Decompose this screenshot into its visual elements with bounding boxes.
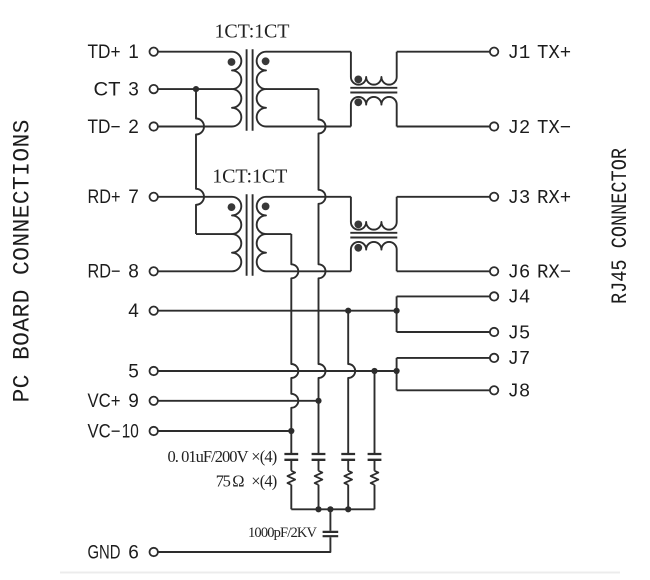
rail 4 vertical (pin5 line to C4) xyxy=(374,371,376,455)
wire T2 primary center tap xyxy=(196,233,232,235)
capacitor C4 0.01uF/200V xyxy=(368,454,382,460)
svg-text:RD+: RD+ xyxy=(88,187,121,208)
choke L2 top winding xyxy=(351,197,397,230)
wire CT pin3 to T1 primary center tap xyxy=(158,88,232,90)
wire TD+ pin1 to T1 primary top xyxy=(158,51,232,53)
svg-text:×(4): ×(4) xyxy=(251,471,277,490)
transformer T1 core xyxy=(247,49,253,131)
svg-text:1000pF/2KV: 1000pF/2KV xyxy=(248,525,318,541)
svg-text:CT: CT xyxy=(94,80,121,101)
capacitor C3 0.01uF/200V xyxy=(341,454,355,460)
svg-text:75 Ω: 75 Ω xyxy=(216,471,245,490)
svg-text:5: 5 xyxy=(128,361,139,382)
svg-text:RJ45 CONNECTOR: RJ45 CONNECTOR xyxy=(608,148,633,304)
svg-text:6: 6 xyxy=(128,542,139,563)
svg-text:J5: J5 xyxy=(508,322,531,344)
terminal J6 circle xyxy=(490,267,498,275)
pin CT 3 terminal xyxy=(150,85,158,93)
svg-text:7: 7 xyxy=(128,187,139,208)
T1 secondary phase dot xyxy=(262,57,270,65)
pin VC+ 9 terminal xyxy=(150,397,158,405)
svg-text:TX−: TX− xyxy=(537,117,571,139)
pin TD+ 1 terminal xyxy=(150,48,158,56)
junction pin4 at bracket xyxy=(394,308,400,314)
svg-text:J2: J2 xyxy=(508,117,531,139)
choke L1 core xyxy=(350,88,397,93)
wire choke L2 to J3 xyxy=(397,196,490,198)
transformer T2 core xyxy=(247,194,253,275)
wire C3 to R3 xyxy=(347,461,349,471)
junction CT pin3 xyxy=(193,86,199,92)
svg-text:TD+: TD+ xyxy=(88,42,121,63)
svg-text:TD−: TD− xyxy=(88,117,121,138)
choke L1 bottom winding xyxy=(351,97,397,127)
resistor R2 75ohm xyxy=(315,471,323,485)
rail 3 vertical (pin4 line to C3) xyxy=(348,311,355,455)
wire T2 secondary center tap xyxy=(266,233,291,235)
wire TD- pin2 to T1 primary bottom xyxy=(158,126,232,128)
wire pin5 to J7/J8 bracket xyxy=(158,370,397,372)
wire T1 secondary top to choke L1 xyxy=(266,51,351,53)
pin RD− 8 terminal xyxy=(150,267,158,275)
svg-text:1: 1 xyxy=(128,42,139,63)
terminal J4 circle xyxy=(490,292,498,300)
transformer T2 primary winding xyxy=(232,197,241,271)
svg-text:×(4): ×(4) xyxy=(251,447,277,466)
svg-text:4: 4 xyxy=(128,301,139,322)
wire T2 secondary top to choke L2 xyxy=(266,196,351,198)
wire T1 secondary center tap xyxy=(266,88,319,90)
wire R1 to bottom rail xyxy=(290,485,292,510)
pin TD− 2 terminal xyxy=(150,122,158,130)
rail 2 (T1 secondary CT / VC+) vertical xyxy=(319,89,326,455)
rail 1 (T2 secondary CT / VC-) vertical xyxy=(291,234,298,455)
terminal J8 circle xyxy=(490,386,498,394)
resistor R4 75ohm xyxy=(371,471,379,485)
terminal J2 circle xyxy=(490,122,498,130)
junction rail 3 on pin4 line xyxy=(345,308,351,314)
choke L1 top winding dot xyxy=(354,76,362,84)
svg-text:VC−: VC− xyxy=(88,421,121,442)
wire R4 to bottom rail xyxy=(374,485,376,510)
svg-text:J6: J6 xyxy=(508,262,531,284)
T2 secondary phase dot xyxy=(262,203,270,211)
choke L2 bottom winding xyxy=(351,242,397,271)
capacitor C2 0.01uF/200V xyxy=(312,454,326,460)
choke L1 top winding xyxy=(351,52,397,85)
resistor R1 75ohm xyxy=(287,471,295,485)
capacitor C5 1000pF/2KV xyxy=(323,532,339,536)
bracket J7-J8 xyxy=(397,358,490,390)
svg-text:RX−: RX− xyxy=(537,262,571,284)
pin 5 terminal xyxy=(150,367,158,375)
bottom rail wire xyxy=(291,508,374,510)
scan artifact streak xyxy=(60,572,620,574)
junction bottom rail at C5 tap xyxy=(327,506,333,512)
junction bottom rail at R3 xyxy=(345,506,351,512)
junction bottom rail at R2 xyxy=(315,506,321,512)
wire T1 secondary bottom to choke L1 xyxy=(266,126,351,128)
pin GND 6 terminal xyxy=(150,548,158,556)
wire VC- pin10 to rail 1 xyxy=(158,430,291,432)
terminal J7 circle xyxy=(490,354,498,362)
wire VC+ pin9 to rail 2 xyxy=(158,400,319,402)
svg-text:J7: J7 xyxy=(508,348,531,370)
pin VC− 10 terminal xyxy=(150,427,158,435)
svg-text:0. 01uF/200V: 0. 01uF/200V xyxy=(168,447,249,466)
bracket J4-J5 xyxy=(397,296,490,332)
wire RD- pin8 to T2 primary bottom xyxy=(158,270,232,272)
T1 primary phase dot xyxy=(228,58,236,66)
svg-text:GND: GND xyxy=(88,542,121,563)
svg-text:2: 2 xyxy=(128,117,139,138)
svg-text:10: 10 xyxy=(122,421,139,442)
wire choke L1 to J2 xyxy=(397,126,490,128)
junction VC- on rail 1 xyxy=(288,428,294,434)
resistor R3 75ohm xyxy=(344,471,352,485)
wire T2 secondary bottom to choke L2 xyxy=(266,270,351,272)
terminal J5 circle xyxy=(490,328,498,336)
terminal J1 circle xyxy=(490,48,498,56)
wire R3 to bottom rail xyxy=(347,485,349,510)
T2 primary phase dot xyxy=(228,203,236,211)
wire C1 to R1 xyxy=(290,461,292,471)
svg-text:J1: J1 xyxy=(508,42,531,64)
wire choke L2 to J6 xyxy=(397,270,490,272)
svg-text:RX+: RX+ xyxy=(537,187,571,209)
choke L2 top winding dot xyxy=(354,221,362,229)
svg-text:J3: J3 xyxy=(508,187,531,209)
svg-text:RD−: RD− xyxy=(88,262,121,283)
svg-text:3: 3 xyxy=(128,80,139,101)
pin RD+ 7 terminal xyxy=(150,193,158,201)
transformer T2 secondary winding xyxy=(257,197,266,271)
svg-text:8: 8 xyxy=(128,262,139,283)
wire CT vertical pin3 to T2 center tap xyxy=(196,89,204,234)
wire C5 to GND pin6 xyxy=(158,537,331,552)
svg-text:1CT:1CT: 1CT:1CT xyxy=(215,20,290,42)
junction VC+ on rail 2 xyxy=(315,398,321,404)
junction rail 4 on pin5 line xyxy=(371,368,377,374)
svg-text:VC+: VC+ xyxy=(88,391,121,412)
terminal J3 circle xyxy=(490,193,498,201)
wire pin4 to J4/J5 bracket xyxy=(158,310,397,312)
svg-text:PC BOARD CONNECTIONS: PC BOARD CONNECTIONS xyxy=(9,120,35,403)
wire R2 to bottom rail xyxy=(318,485,320,510)
svg-text:TX+: TX+ xyxy=(537,42,571,64)
transformer T1 primary winding xyxy=(232,52,241,127)
pin 4 terminal xyxy=(150,307,158,315)
junction pin5 at bracket xyxy=(394,368,400,374)
wire choke L1 to J1 xyxy=(397,51,490,53)
capacitor C1 0.01uF/200V xyxy=(284,454,298,460)
choke L1 bottom winding dot xyxy=(354,98,362,106)
svg-text:J4: J4 xyxy=(508,287,531,309)
choke L2 core xyxy=(350,233,397,238)
choke L2 bottom winding dot xyxy=(354,244,362,252)
svg-text:9: 9 xyxy=(128,391,139,412)
wire RD+ pin7 to T2 primary top xyxy=(158,196,232,198)
wire C4 to R4 xyxy=(374,461,376,471)
wire bottom rail to C5 xyxy=(329,509,331,531)
wire C2 to R2 xyxy=(318,461,320,471)
svg-text:J8: J8 xyxy=(508,381,531,403)
svg-text:1CT:1CT: 1CT:1CT xyxy=(212,166,287,188)
transformer T1 secondary winding xyxy=(257,52,266,127)
